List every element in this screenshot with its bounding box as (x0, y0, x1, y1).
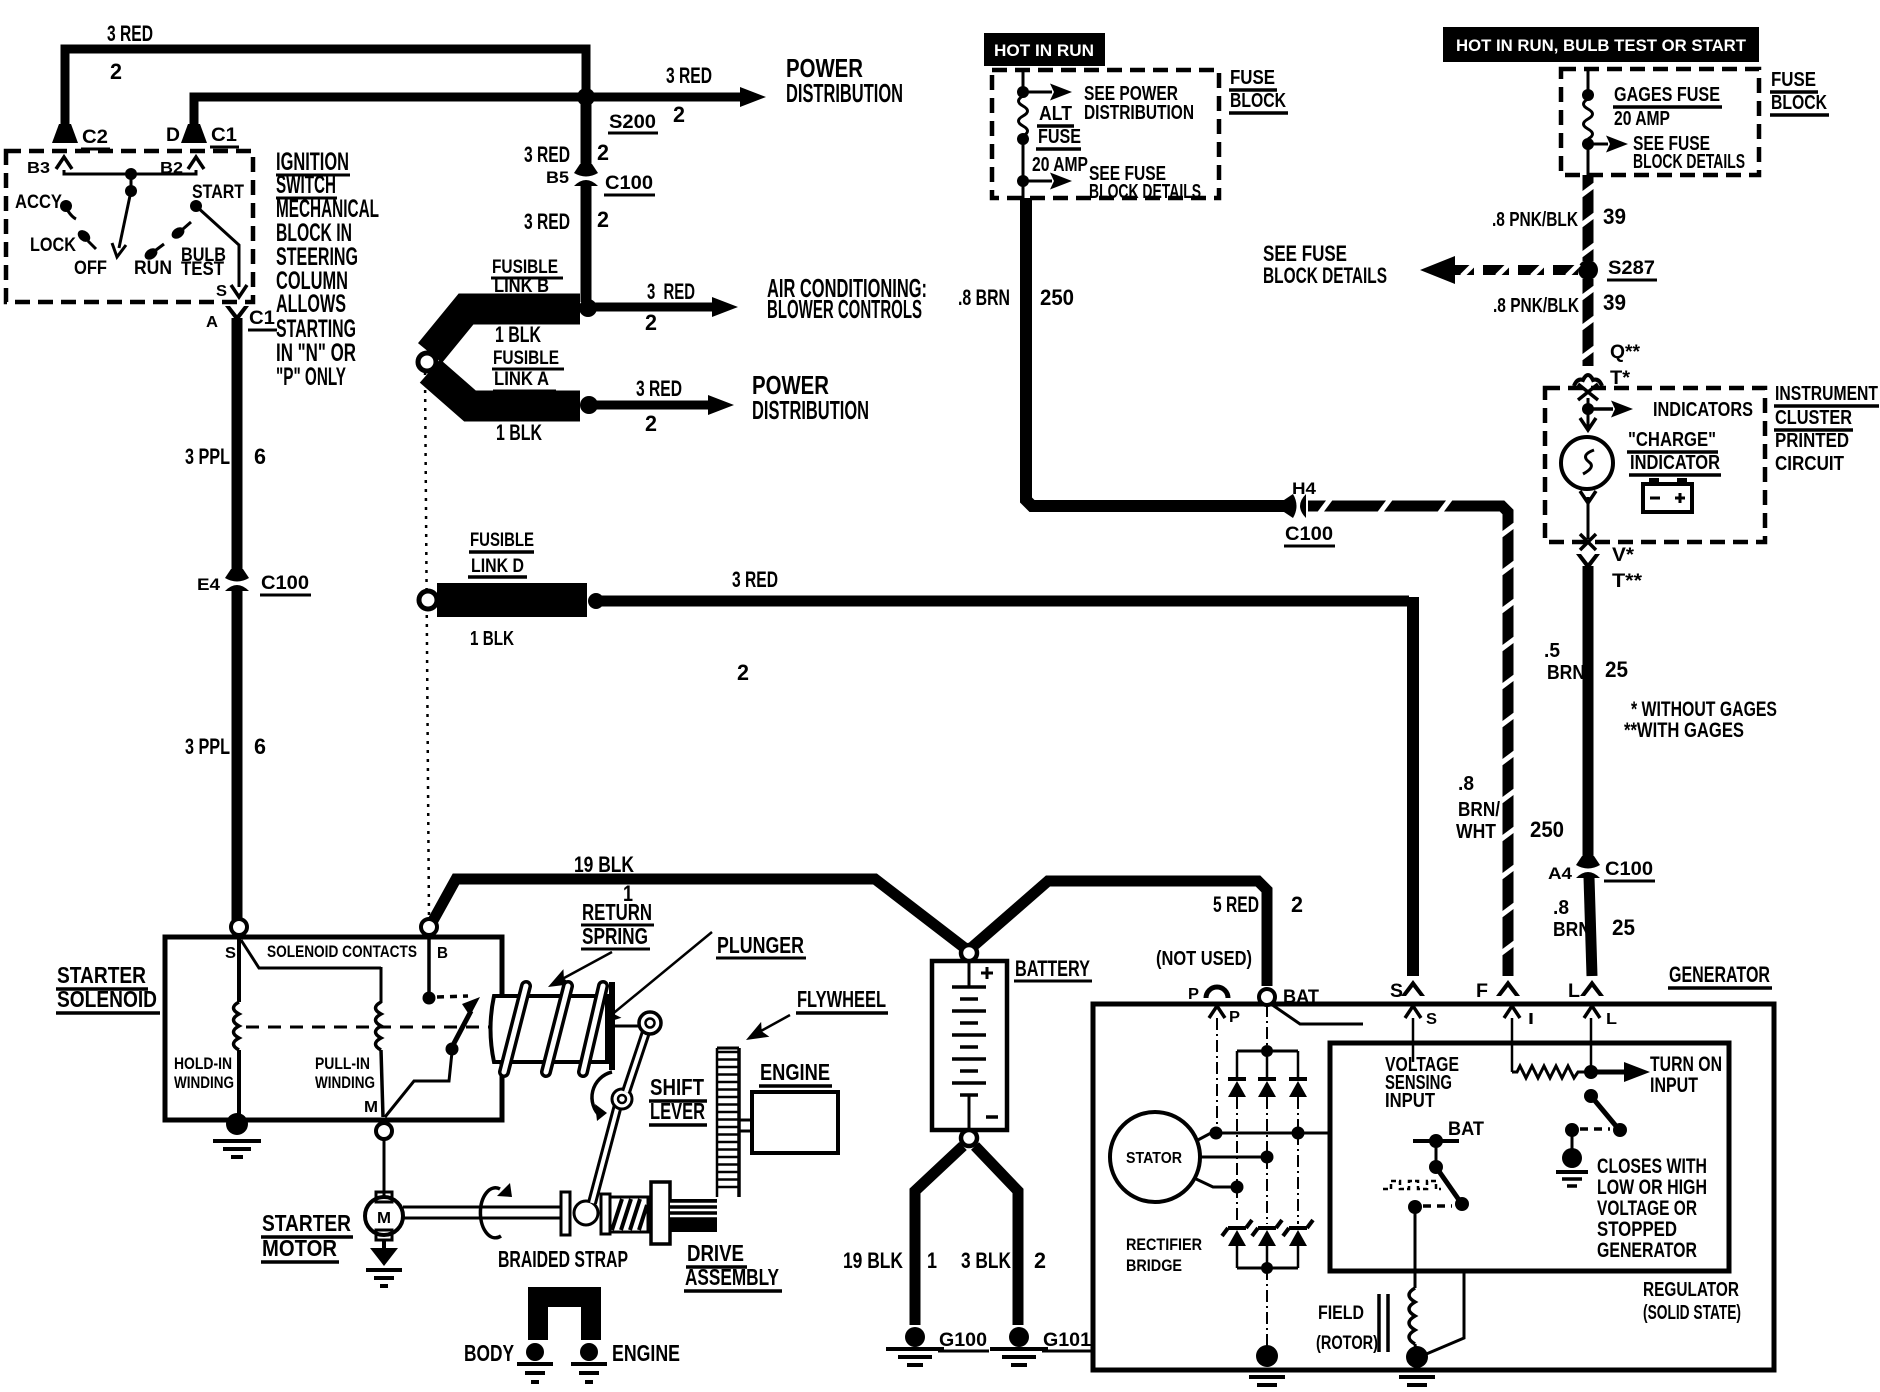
svg-text:WHT: WHT (1456, 821, 1496, 843)
F line and resistor (1511, 1018, 1514, 1072)
svg-text:39: 39 (1603, 290, 1626, 315)
svg-text:GENERATOR: GENERATOR (1597, 1239, 1697, 1262)
svg-text:2: 2 (737, 660, 749, 685)
generator L terminal fishtail (1580, 980, 1604, 996)
wire 3 PPL upper (232, 318, 243, 572)
svg-text:2: 2 (110, 59, 122, 84)
engine ground (580, 1343, 598, 1361)
lamp switch (1584, 1089, 1598, 1103)
link rod to lever (615, 1025, 638, 1028)
svg-text:Q**: Q** (1610, 342, 1641, 363)
P sense line (1216, 1018, 1218, 1128)
svg-text:ENGINE: ENGINE (612, 1340, 680, 1366)
svg-text:STARTER: STARTER (262, 1210, 351, 1236)
rectifier bottom bus (1236, 1246, 1239, 1268)
battery top terminal ring (961, 945, 977, 961)
svg-text:C1: C1 (211, 125, 237, 146)
svg-text:RUN: RUN (134, 258, 172, 279)
gages fuse wire (1587, 69, 1590, 95)
svg-text:3 RED: 3 RED (524, 142, 570, 167)
svg-text:S: S (216, 283, 227, 300)
svg-text:TURN ON: TURN ON (1650, 1053, 1722, 1076)
banner HOT IN RUN, BULB TEST OR START (1443, 27, 1759, 62)
svg-text:BAT: BAT (1448, 1119, 1484, 1140)
second regulator output (1424, 1271, 1464, 1355)
plunger body (491, 996, 608, 1062)
fuse block dashed box (1561, 69, 1759, 175)
wire 19 BLK to G100 (915, 1146, 963, 1325)
svg-text:H4: H4 (1292, 479, 1317, 498)
svg-text:CLOSES WITH: CLOSES WITH (1597, 1155, 1707, 1178)
hatched wire .8 BRN/WHT to generator F (1308, 506, 1508, 976)
plus sign (981, 967, 993, 979)
gages fuse element (1584, 99, 1593, 139)
leader arrow to plunger (604, 932, 712, 1021)
wire 3 RED down to fusible link B junction (581, 184, 592, 302)
svg-text:FUSE: FUSE (1771, 69, 1816, 91)
regulator box (1330, 1043, 1729, 1271)
turn on arrow (1591, 1070, 1626, 1075)
ignition switch dashed box (6, 151, 253, 302)
svg-text:RECTIFIER: RECTIFIER (1126, 1235, 1202, 1254)
svg-text:MOTOR: MOTOR (262, 1235, 337, 1261)
svg-text:START: START (192, 182, 244, 203)
starter motor (376, 1192, 392, 1202)
svg-text:.8 PNK/BLK: .8 PNK/BLK (1493, 295, 1579, 317)
svg-text:FUSE: FUSE (1038, 126, 1081, 148)
svg-text:**WITH GAGES: **WITH GAGES (1624, 719, 1744, 742)
svg-text:(ROTOR): (ROTOR) (1316, 1333, 1378, 1354)
svg-text:HOT IN RUN: HOT IN RUN (994, 41, 1094, 60)
ALT fuse wire and contacts (1022, 70, 1025, 92)
svg-text:25: 25 (1605, 657, 1628, 682)
generator F terminal fishtail (1496, 980, 1520, 996)
svg-text:3 RED: 3 RED (524, 209, 570, 234)
fusible link A body (430, 371, 580, 406)
field wire down (1414, 1211, 1417, 1288)
svg-text:S: S (225, 945, 236, 962)
wire 3 RED (C1/D feed) (194, 97, 584, 132)
svg-text:BLOCK DETAILS: BLOCK DETAILS (1089, 181, 1201, 203)
svg-text:CIRCUIT: CIRCUIT (1775, 453, 1844, 475)
svg-text:ACCY: ACCY (15, 192, 62, 213)
svg-text:C1: C1 (249, 308, 275, 329)
connector C100 (H4) (1284, 494, 1306, 518)
svg-text:BLOCK: BLOCK (1230, 90, 1286, 112)
svg-text:DISTRIBUTION: DISTRIBUTION (1084, 102, 1194, 124)
svg-text:1 BLK: 1 BLK (496, 420, 542, 445)
svg-text:3 RED: 3 RED (647, 279, 695, 304)
mechanical dashed link (246, 1026, 492, 1029)
svg-text:FLYWHEEL: FLYWHEEL (797, 986, 886, 1012)
svg-text:P: P (1229, 1009, 1240, 1026)
charge indicator lamp (1580, 418, 1596, 430)
svg-text:BRN/: BRN/ (1458, 799, 1500, 821)
stator (1110, 1112, 1200, 1202)
svg-text:BLOCK DETAILS: BLOCK DETAILS (1263, 263, 1387, 288)
zener diode 3 (1283, 1220, 1313, 1236)
svg-text:2: 2 (645, 310, 657, 335)
lever rotation arc arrow (592, 1072, 612, 1117)
svg-text:M: M (377, 1210, 391, 1227)
battery cells (968, 961, 971, 986)
svg-text:HOLD-IN: HOLD-IN (174, 1054, 232, 1073)
svg-text:250: 250 (1530, 817, 1564, 842)
connector C100 (B5) (574, 164, 598, 186)
zener diode 1 (1222, 1220, 1252, 1236)
stator phase top (1196, 1133, 1329, 1141)
svg-text:3 RED: 3 RED (107, 21, 153, 46)
svg-text:RETURN: RETURN (582, 899, 652, 925)
svg-text:HOT IN RUN, BULB TEST OR START: HOT IN RUN, BULB TEST OR START (1456, 36, 1747, 55)
fusible link D body (437, 583, 587, 617)
engine box (752, 1092, 838, 1153)
gear to engine coupling (740, 1119, 752, 1122)
svg-text:3 RED: 3 RED (666, 63, 712, 88)
motor ground (370, 1248, 398, 1266)
hatched arrow to fuse block details (1448, 265, 1578, 275)
wiper arm to OFF (119, 191, 131, 248)
svg-text:.8: .8 (1458, 773, 1474, 795)
svg-text:TEST: TEST (181, 259, 224, 280)
svg-text:1 BLK: 1 BLK (470, 628, 514, 650)
svg-text:BLOCK DETAILS: BLOCK DETAILS (1633, 151, 1745, 173)
svg-text:2: 2 (673, 102, 685, 127)
svg-text:20 AMP: 20 AMP (1614, 108, 1670, 130)
svg-text:LINK D: LINK D (471, 556, 524, 577)
svg-text:5 RED: 5 RED (1213, 892, 1259, 917)
splice S287 (1578, 260, 1598, 280)
tap arrow (1588, 143, 1608, 146)
ALT fuse element (1019, 96, 1028, 136)
voltage sensing line (1412, 1018, 1415, 1062)
svg-text:LINK A: LINK A (494, 369, 549, 390)
rotor brushes (1377, 1294, 1381, 1352)
svg-text:3 PPL: 3 PPL (185, 444, 230, 469)
svg-text:20 AMP: 20 AMP (1032, 154, 1088, 176)
start wire to S (196, 206, 239, 287)
svg-text:STATOR: STATOR (1126, 1150, 1182, 1167)
svg-text:S287: S287 (1608, 258, 1655, 279)
B contact wire (427, 937, 431, 993)
svg-text:BRN: BRN (1547, 662, 1585, 684)
svg-text:ENGINE: ENGINE (760, 1059, 830, 1085)
svg-text:ASSEMBLY: ASSEMBLY (685, 1264, 779, 1290)
svg-text:C100: C100 (605, 173, 653, 194)
regulator switch arm (1436, 1167, 1459, 1200)
wire arrow to power distribution 2 (589, 401, 708, 410)
field rotor coil (1409, 1288, 1415, 1344)
solenoid ground (226, 1113, 248, 1135)
wire .8 BRN down and to H4 (1026, 198, 1284, 506)
svg-text:6: 6 (254, 734, 266, 759)
svg-text:CLUSTER: CLUSTER (1775, 407, 1852, 429)
svg-text:S: S (1390, 981, 1403, 1002)
lamp switch ground (1571, 1136, 1574, 1150)
svg-text:2: 2 (597, 207, 609, 232)
terminal BAT ring (1259, 989, 1275, 1005)
body ground (526, 1343, 544, 1361)
svg-text:250: 250 (1040, 285, 1074, 310)
svg-text:SPRING: SPRING (582, 923, 648, 949)
svg-text:FUSIBLE: FUSIBLE (470, 530, 534, 551)
connector C100 (E4) (225, 569, 249, 591)
svg-text:19 BLK: 19 BLK (574, 852, 634, 877)
svg-text:V*: V* (1612, 545, 1635, 566)
svg-text:LOW OR HIGH: LOW OR HIGH (1597, 1176, 1707, 1199)
svg-text:G100: G100 (939, 1330, 987, 1351)
svg-text:FUSIBLE: FUSIBLE (492, 257, 558, 278)
hold-in winding (237, 937, 241, 1002)
rectifier ground (1266, 1268, 1268, 1348)
hatched wire .8 PNK/BLK upper (1583, 175, 1594, 261)
wire M to starter motor (383, 1139, 386, 1197)
svg-text:FUSIBLE: FUSIBLE (493, 348, 559, 369)
drive assembly collar (651, 1182, 670, 1244)
field ground (1406, 1346, 1428, 1368)
svg-text:INDICATORS: INDICATORS (1653, 399, 1753, 421)
svg-text:2: 2 (645, 411, 657, 436)
svg-text:3 RED: 3 RED (636, 376, 682, 401)
svg-text:A4: A4 (1548, 864, 1573, 883)
shift lever lower arm (592, 1105, 618, 1203)
svg-text:STOPPED: STOPPED (1597, 1218, 1677, 1241)
shaft end plate (561, 1192, 570, 1235)
svg-text:INDICATOR: INDICATOR (1630, 452, 1720, 474)
terminal B2 arrow (188, 157, 204, 169)
second tap arrow (1022, 139, 1025, 198)
svg-text:2: 2 (1034, 1248, 1046, 1273)
stator phase mid (1200, 1156, 1261, 1159)
terminal S ring (231, 919, 247, 935)
svg-text:WINDING: WINDING (174, 1073, 234, 1092)
battery icon (1643, 484, 1692, 512)
phase drop lines (1236, 1097, 1238, 1186)
svg-text:ALT: ALT (1039, 103, 1072, 125)
svg-text:FIELD: FIELD (1318, 1303, 1364, 1324)
minus sign (986, 1115, 998, 1119)
svg-text:L: L (1606, 1011, 1617, 1028)
svg-text:3 BLK: 3 BLK (961, 1248, 1011, 1273)
ground G100 (905, 1327, 925, 1347)
junction dot (125, 168, 137, 180)
svg-text:BRIDGE: BRIDGE (1126, 1256, 1182, 1275)
wire 19 BLK (battery to solenoid B) (430, 879, 966, 949)
svg-text:3 PPL: 3 PPL (185, 734, 230, 759)
moving contact arm (452, 1011, 471, 1047)
dotted alignment line down to solenoid B terminal (425, 372, 429, 920)
svg-text:B3: B3 (27, 160, 50, 177)
pull-in coil feed stub (380, 967, 383, 1003)
wire 3 BLK to G101 (975, 1146, 1018, 1325)
fuse block dashed box (992, 70, 1219, 198)
diode 3 (1289, 1077, 1307, 1081)
svg-text:A: A (206, 314, 218, 331)
svg-text:REGULATOR: REGULATOR (1643, 1279, 1739, 1301)
svg-text:.5: .5 (1544, 640, 1560, 662)
svg-text:DRIVE: DRIVE (687, 1240, 744, 1266)
connector male/female at cluster top (1574, 375, 1602, 386)
svg-text:C100: C100 (261, 573, 309, 594)
BAT line to regulator (1271, 1004, 1363, 1024)
fusible link B body (430, 309, 580, 353)
svg-text:BLOWER CONTROLS: BLOWER CONTROLS (767, 294, 922, 324)
svg-text:BRAIDED STRAP: BRAIDED STRAP (498, 1246, 628, 1272)
connector C100 (A4) (1576, 856, 1600, 878)
return spring coils (504, 986, 603, 1072)
svg-text:ALLOWS: ALLOWS (276, 290, 346, 318)
drive assembly hatched sleeve (610, 1197, 648, 1232)
svg-text:T**: T** (1612, 571, 1643, 592)
shift lever elbow (612, 1089, 632, 1109)
svg-text:1: 1 (927, 1248, 937, 1273)
switch bus wire (64, 170, 196, 174)
wire arrow to blower controls (588, 303, 712, 312)
svg-text:SOLENOID CONTACTS: SOLENOID CONTACTS (267, 942, 417, 961)
diode 1 (1228, 1077, 1246, 1081)
svg-text:BLOCK: BLOCK (1771, 92, 1827, 114)
svg-text:B: B (437, 945, 448, 962)
svg-text:VOLTAGE OR: VOLTAGE OR (1597, 1197, 1697, 1220)
terminal P arc (1206, 987, 1228, 998)
wire 3 RED (C2 feed) (65, 49, 586, 132)
wire 3 RED down to C100 (581, 101, 592, 165)
wire 3 RED to generator S (602, 596, 1409, 607)
terminal P arrow inside (1209, 1006, 1225, 1018)
plunger end plate (609, 982, 615, 1070)
hatched wire .8 PNK/BLK lower (1583, 279, 1594, 366)
battery box (932, 961, 1007, 1130)
terminal B3 arrow (56, 157, 72, 169)
svg-text:GAGES FUSE: GAGES FUSE (1614, 84, 1720, 106)
rotation arrow on shaft (480, 1188, 501, 1238)
svg-text:PRINTED: PRINTED (1775, 430, 1849, 452)
svg-text:LOCK: LOCK (30, 235, 76, 256)
splice S200 (577, 88, 595, 106)
battery bottom terminal ring (961, 1130, 977, 1146)
svg-text:D: D (166, 125, 180, 146)
zener diode 2 (1252, 1220, 1282, 1236)
svg-text:.8 PNK/BLK: .8 PNK/BLK (1492, 209, 1578, 231)
svg-text:"CHARGE": "CHARGE" (1628, 429, 1716, 451)
svg-text:C100: C100 (1285, 524, 1333, 545)
terminal C1 flare (181, 124, 207, 143)
svg-text:(NOT USED): (NOT USED) (1156, 948, 1252, 970)
svg-text:* WITHOUT GAGES: * WITHOUT GAGES (1631, 698, 1777, 721)
svg-text:M: M (364, 1099, 378, 1116)
shift lever upper arm (626, 1032, 646, 1092)
svg-text:BODY: BODY (464, 1340, 514, 1366)
svg-text:2: 2 (1291, 892, 1303, 917)
svg-text:.8 BRN: .8 BRN (958, 285, 1010, 310)
indicators tap (1587, 398, 1590, 428)
wire 5 RED (battery to generator BAT) (970, 881, 1267, 986)
svg-text:WINDING: WINDING (315, 1073, 375, 1092)
lever ball joint (574, 1201, 598, 1225)
svg-text:P: P (1188, 986, 1199, 1003)
svg-text:LEVER: LEVER (650, 1098, 705, 1124)
svg-text:F: F (1476, 981, 1488, 1002)
pull-in winding (376, 1002, 382, 1050)
svg-text:PLUNGER: PLUNGER (717, 932, 804, 958)
svg-text:C2: C2 (82, 127, 108, 148)
svg-text:19 BLK: 19 BLK (843, 1248, 903, 1273)
BAT line to rectifier (1266, 1005, 1268, 1046)
svg-text:BATTERY: BATTERY (1015, 956, 1090, 981)
svg-text:DISTRIBUTION: DISTRIBUTION (752, 395, 869, 425)
PWM squarewave symbol (1383, 1181, 1441, 1189)
generator box (1093, 1004, 1774, 1370)
svg-text:2: 2 (597, 140, 609, 165)
svg-text:PULL-IN: PULL-IN (315, 1054, 370, 1073)
drive assembly end plate (601, 1194, 610, 1234)
svg-text:FUSE: FUSE (1230, 67, 1275, 89)
terminal B ring (421, 919, 437, 935)
svg-text:SOLENOID: SOLENOID (57, 986, 157, 1012)
svg-text:3 RED: 3 RED (732, 567, 778, 592)
motor shaft (403, 1206, 562, 1209)
wire .8 BRN to L (1589, 877, 1592, 976)
braided strap (538, 1297, 591, 1340)
instrument cluster dashed box (1545, 388, 1765, 542)
fusible link D ring (419, 591, 437, 609)
shift lever top pivot (639, 1012, 661, 1034)
svg-text:"P" ONLY: "P" ONLY (276, 363, 346, 391)
contact feed wire (241, 940, 381, 968)
svg-text:I: I (1528, 1011, 1534, 1028)
leader arrow to flywheel (750, 1015, 790, 1037)
flywheel gear (737, 1048, 741, 1197)
svg-text:E4: E4 (197, 575, 221, 594)
leader arrow to return spring (553, 952, 612, 984)
svg-text:L: L (1568, 981, 1580, 1002)
svg-text:S: S (1426, 1011, 1437, 1028)
svg-text:INPUT: INPUT (1650, 1074, 1698, 1097)
svg-text:SHIFT: SHIFT (650, 1074, 704, 1100)
svg-text:BAT: BAT (1283, 987, 1319, 1008)
svg-text:C100: C100 (1605, 859, 1653, 880)
svg-text:G101: G101 (1043, 1330, 1091, 1351)
L line (1590, 1018, 1593, 1072)
banner HOT IN RUN (984, 33, 1105, 66)
svg-text:6: 6 (254, 444, 266, 469)
contact linkage to M (385, 1052, 452, 1117)
wire .5 BRN down (1583, 566, 1594, 859)
svg-text:INPUT: INPUT (1385, 1090, 1435, 1112)
diode 2 (1258, 1077, 1276, 1081)
wiper pivot dot (125, 185, 137, 197)
svg-text:25: 25 (1612, 915, 1635, 940)
svg-text:.8: .8 (1553, 897, 1569, 919)
stator phase bottom (1194, 1178, 1231, 1187)
wire arrow to power distribution (586, 93, 742, 102)
starter solenoid box (165, 937, 502, 1120)
svg-text:1 BLK: 1 BLK (495, 322, 541, 347)
ground G101 (1009, 1327, 1029, 1347)
svg-text:OFF: OFF (74, 258, 107, 279)
svg-text:INSTRUMENT: INSTRUMENT (1775, 383, 1878, 405)
svg-text:S200: S200 (609, 112, 656, 133)
svg-text:STARTER: STARTER (57, 962, 146, 988)
drive assembly splined shaft (670, 1199, 717, 1232)
svg-text:GENERATOR: GENERATOR (1669, 962, 1770, 987)
terminal C2 flare (52, 124, 78, 143)
svg-text:(SOLID STATE): (SOLID STATE) (1643, 1302, 1741, 1324)
svg-text:B5: B5 (546, 168, 569, 187)
rectifier top bus (1237, 1050, 1298, 1053)
connector at cluster bottom (1580, 534, 1596, 550)
svg-text:DISTRIBUTION: DISTRIBUTION (786, 78, 903, 108)
